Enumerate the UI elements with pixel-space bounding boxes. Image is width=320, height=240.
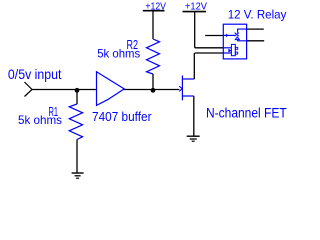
svg-text:5k ohms: 5k ohms: [97, 47, 140, 61]
svg-text:N-channel FET: N-channel FET: [206, 106, 287, 121]
svg-text:7407 buffer: 7407 buffer: [92, 109, 152, 124]
svg-text:12 V. Relay: 12 V. Relay: [228, 7, 287, 21]
svg-text:+12V: +12V: [145, 1, 166, 12]
svg-text:5k ohms: 5k ohms: [18, 113, 62, 127]
svg-text:0/5v input: 0/5v input: [8, 66, 62, 82]
svg-text:+12V: +12V: [185, 1, 207, 12]
